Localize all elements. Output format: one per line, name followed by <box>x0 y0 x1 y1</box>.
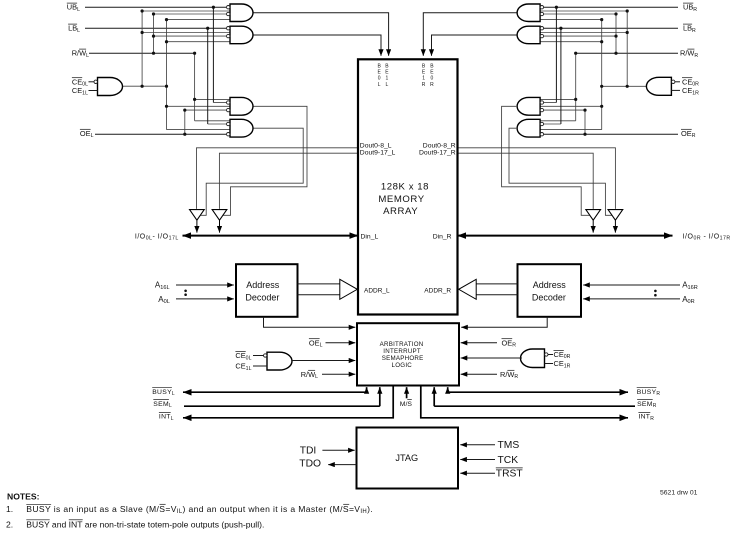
svg-text:TCK: TCK <box>498 455 519 466</box>
svg-text:I/O0R - I/O17R: I/O0R - I/O17R <box>683 233 731 241</box>
svg-text:Decoder: Decoder <box>245 293 279 303</box>
svg-text:TDO: TDO <box>299 459 321 470</box>
svg-text:0: 0 <box>378 76 381 82</box>
svg-text:1.: 1. <box>6 504 13 514</box>
svg-text:ADDR_R: ADDR_R <box>424 287 451 294</box>
svg-text:128K x 18: 128K x 18 <box>381 181 429 192</box>
svg-text:Decoder: Decoder <box>532 293 566 303</box>
svg-text:Address: Address <box>533 280 567 290</box>
svg-text:BUSY and INT are non-tri-state: BUSY and INT are non-tri-state totem-pol… <box>26 519 264 529</box>
svg-text:INTERRUPT: INTERRUPT <box>383 348 421 355</box>
svg-text:TMS: TMS <box>498 440 520 451</box>
svg-text:ARRAY: ARRAY <box>383 206 418 217</box>
svg-text:Address: Address <box>246 280 280 290</box>
svg-text:TRST: TRST <box>496 469 524 480</box>
svg-text:L: L <box>378 82 381 88</box>
svg-text:SEMR: SEMR <box>637 401 657 409</box>
svg-text:R: R <box>430 82 434 88</box>
svg-text:Din_R: Din_R <box>433 233 452 240</box>
svg-text:Dout0-8_R: Dout0-8_R <box>423 142 456 149</box>
svg-text:TDI: TDI <box>300 446 317 457</box>
svg-text:Dout9-17_L: Dout9-17_L <box>360 150 396 157</box>
svg-text:I/O0L- I/O17L: I/O0L- I/O17L <box>135 233 179 241</box>
svg-text:BUSY is an input as a Slave (M: BUSY is an input as a Slave (M/S=VIL) an… <box>26 504 373 515</box>
svg-text:Din_L: Din_L <box>361 233 379 240</box>
svg-text:Dout0-8_L: Dout0-8_L <box>360 142 392 149</box>
svg-text:INTR: INTR <box>638 414 654 422</box>
svg-text:1: 1 <box>422 76 425 82</box>
svg-text:ADDR_L: ADDR_L <box>364 287 390 294</box>
svg-text:MEMORY: MEMORY <box>378 194 424 205</box>
svg-text:M/S: M/S <box>400 401 413 408</box>
svg-text:5621 drw 01: 5621 drw 01 <box>660 490 698 497</box>
svg-text:0: 0 <box>431 76 434 82</box>
svg-text:1: 1 <box>386 76 389 82</box>
svg-text:JTAG: JTAG <box>395 453 418 463</box>
svg-text:L: L <box>386 82 389 88</box>
svg-text:ARBITRATION: ARBITRATION <box>380 341 424 348</box>
svg-text:BUSYR: BUSYR <box>637 389 661 397</box>
svg-text:SEML: SEML <box>153 401 172 409</box>
svg-text:2.: 2. <box>6 519 13 529</box>
svg-text:INTL: INTL <box>159 414 174 422</box>
svg-text:Dout9-17_R: Dout9-17_R <box>419 150 456 157</box>
svg-text:BUSYL: BUSYL <box>152 389 175 397</box>
svg-text:LOGIC: LOGIC <box>392 362 413 369</box>
svg-text:R: R <box>422 82 426 88</box>
svg-text:NOTES:: NOTES: <box>7 491 40 501</box>
